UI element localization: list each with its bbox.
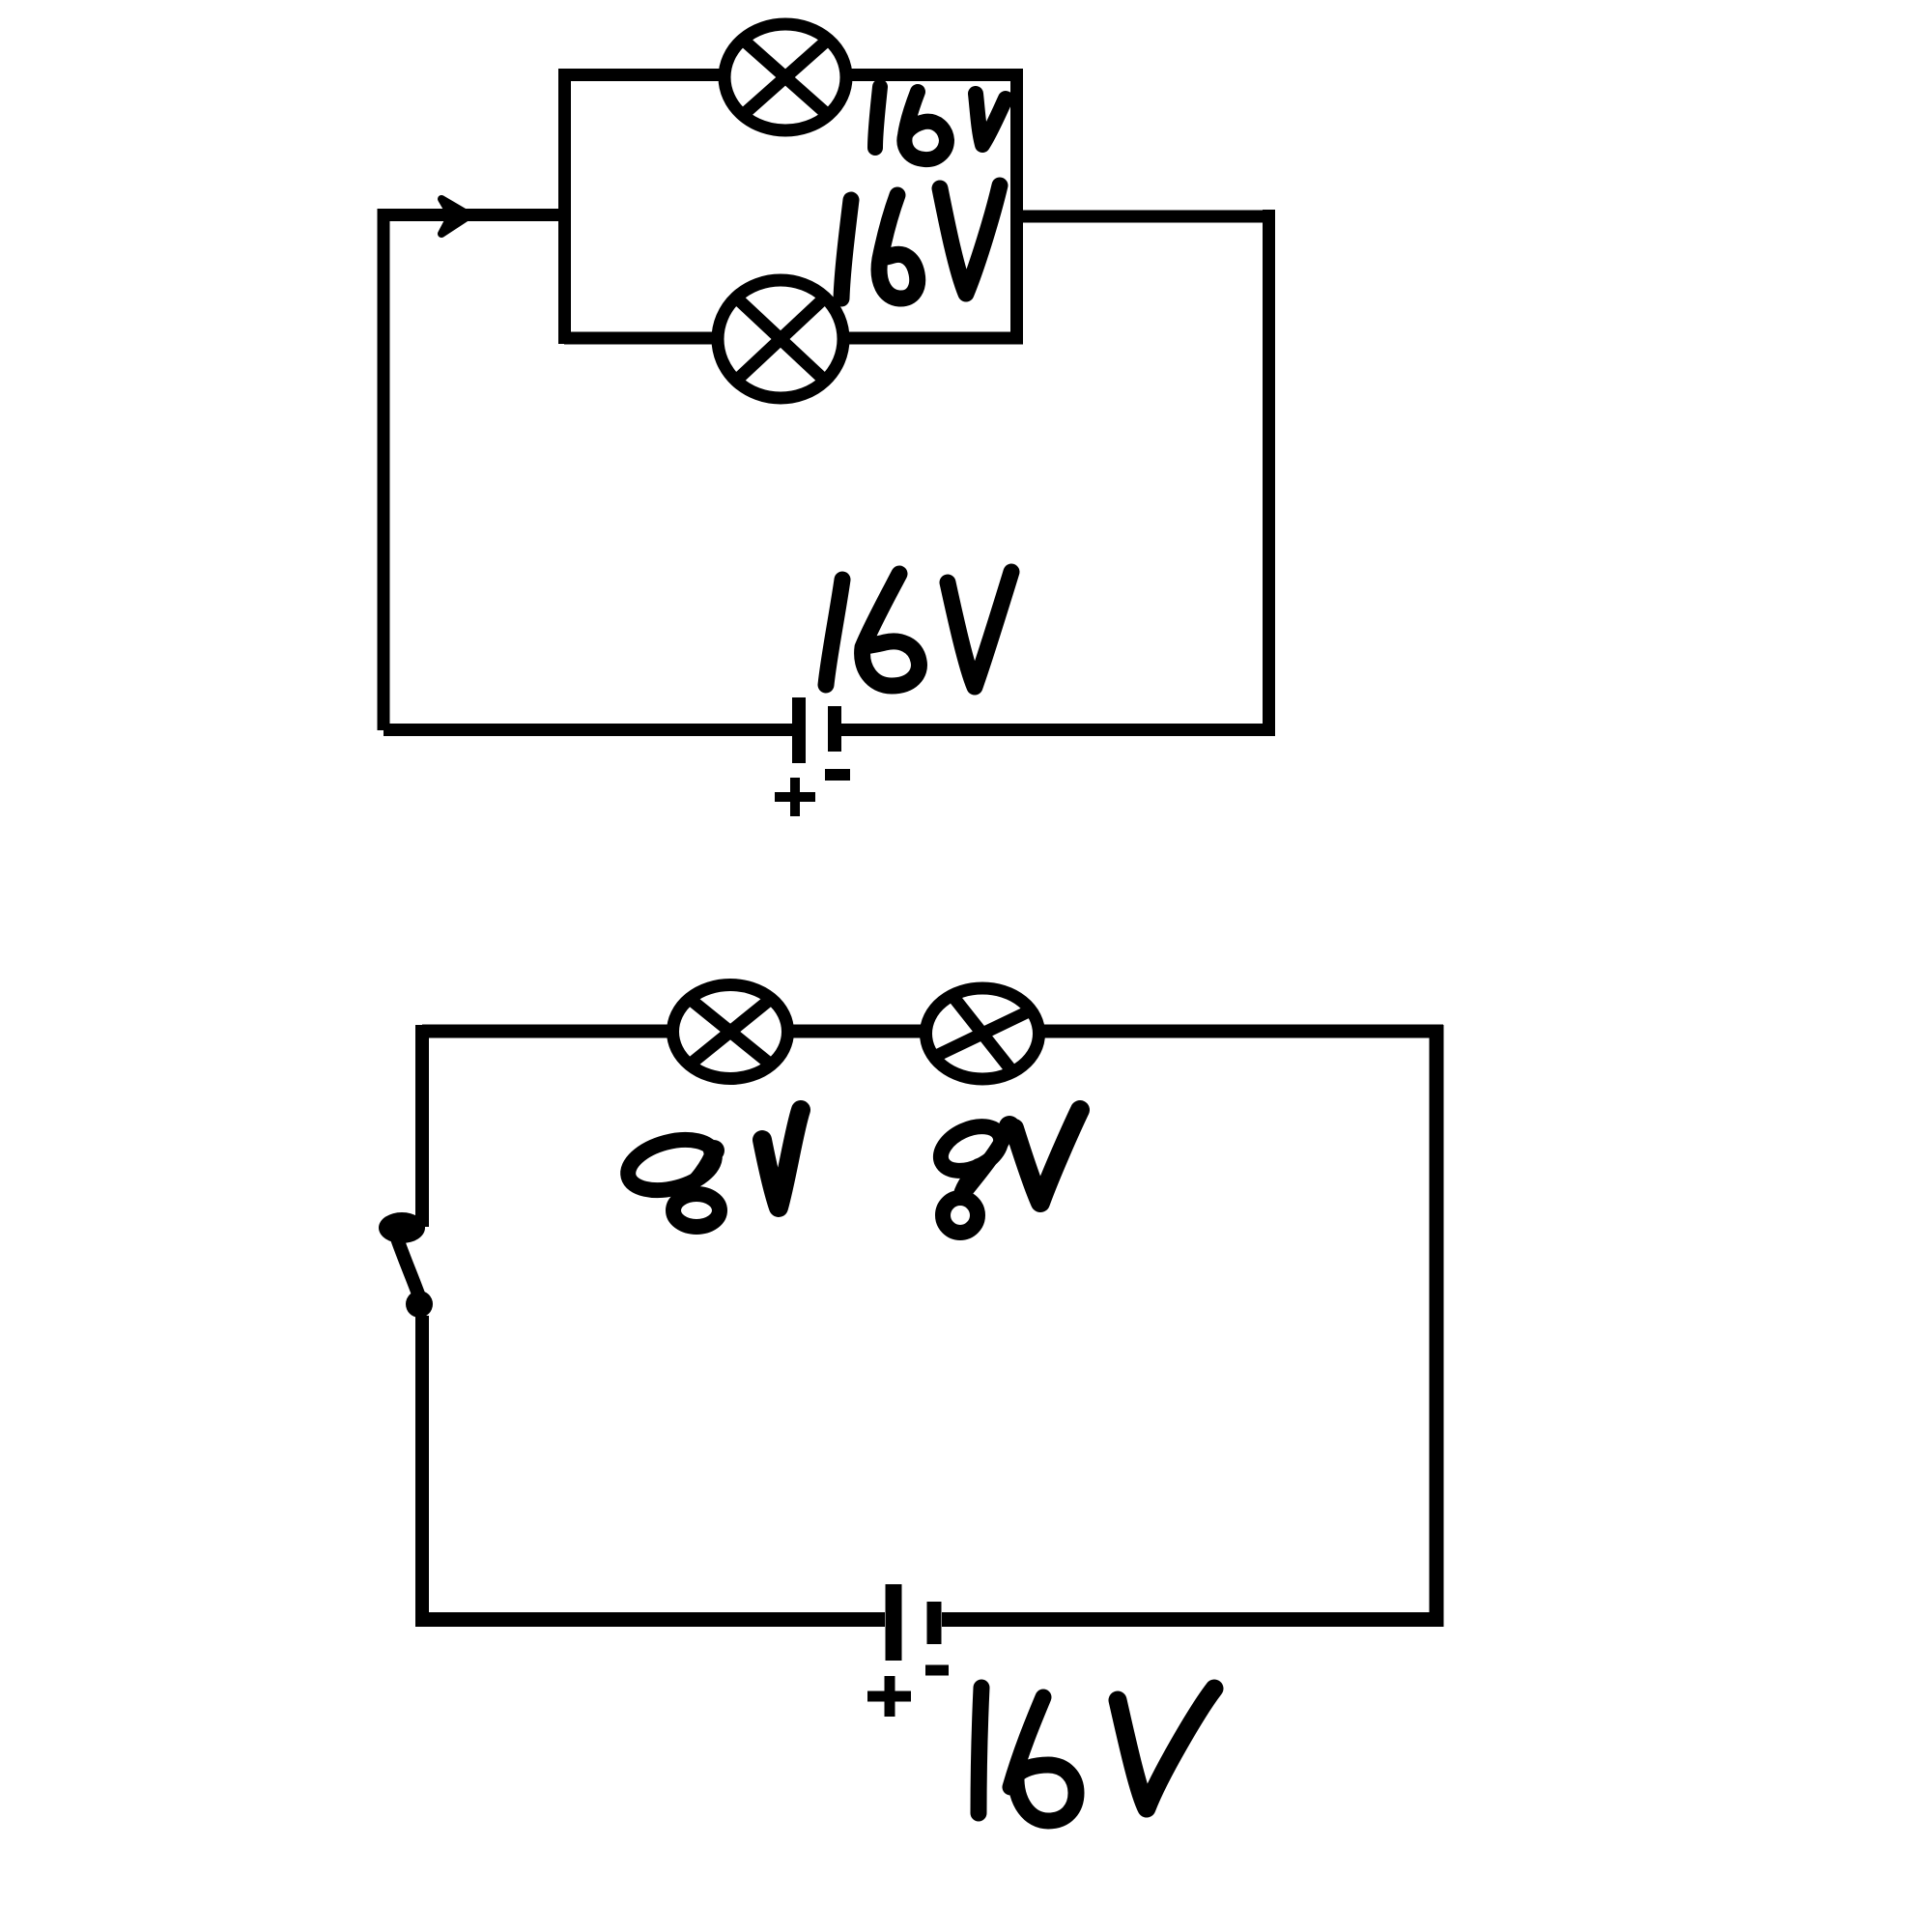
- wire: parallel block left vertical: [558, 69, 571, 344]
- battery BT1 plus sign: [775, 778, 815, 816]
- wire: parallel block bottom wire left segment: [564, 332, 715, 345]
- wire: circuit2 top wire left segment: [422, 1025, 669, 1038]
- battery BT2 minus sign: [925, 1665, 949, 1676]
- wire: parallel block bottom wire right segment: [846, 332, 1023, 345]
- battery BT2 positive plate (long): [886, 1584, 902, 1661]
- wire: circuit2 bottom wire right segment: [942, 1612, 1443, 1627]
- label 16 V (battery 2 value, handwritten): [979, 1688, 1214, 1821]
- lamp L2 (bottom branch): [718, 280, 843, 398]
- wire: circuit1 bottom wire right segment: [841, 724, 1275, 736]
- wire: circuit1 top-left horizontal into parallel block: [378, 209, 570, 221]
- wire: parallel block top wire left segment: [564, 69, 723, 81]
- wire: circuit1 outer right vertical: [1263, 210, 1275, 730]
- battery BT1 positive plate (long): [792, 697, 806, 763]
- wire: block output to outer right vertical: [1016, 211, 1275, 223]
- label 8V (lamp L4 value, handwritten): [941, 1110, 1080, 1233]
- wire: circuit2 left vertical lower (from switch): [415, 1316, 429, 1627]
- battery BT2 plus sign: [867, 1676, 911, 1717]
- wire: circuit2 left vertical upper (to switch): [415, 1025, 429, 1227]
- wire: parallel block top wire right segment: [848, 69, 1023, 81]
- battery BT1 minus sign: [825, 769, 850, 781]
- wire: circuit1 bottom wire left segment: [384, 724, 792, 736]
- wire: circuit2 top wire right segment: [1042, 1025, 1443, 1038]
- label 8V (lamp L3 value, handwritten): [628, 1110, 801, 1227]
- wire: circuit2 bottom wire left segment: [415, 1612, 885, 1627]
- lamp L4: [926, 988, 1039, 1079]
- switch S1 (open): [379, 1212, 433, 1318]
- wire: circuit2 right vertical: [1430, 1025, 1444, 1627]
- label 16V (battery 1 value, handwritten): [826, 572, 1011, 687]
- wire: circuit2 top wire middle segment: [791, 1025, 923, 1038]
- lamp L3: [673, 985, 788, 1079]
- wire: circuit1 outer left vertical: [378, 209, 390, 730]
- label 16v (top lamp value, handwritten): [875, 87, 1006, 159]
- wire: parallel block right vertical: [1010, 69, 1023, 344]
- lamp L1 (top branch): [724, 24, 846, 130]
- battery BT1 negative plate (short): [828, 706, 841, 752]
- label 16V (parallel pair value, handwritten large): [841, 185, 1000, 298]
- current arrow on top-left wire: [441, 199, 469, 234]
- battery BT2 negative plate (short): [927, 1602, 942, 1644]
